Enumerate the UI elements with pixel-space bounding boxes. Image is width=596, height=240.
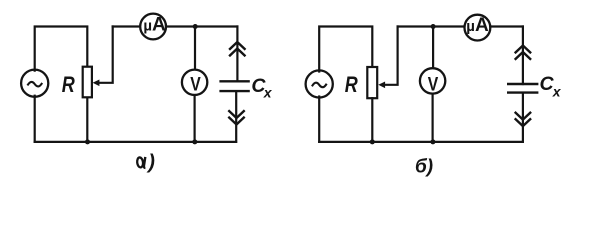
capacitor Cx plates (circuit a) [221,81,249,91]
wiper arrow wire of R (circuit b) [384,27,398,85]
capacitor Cx plates (circuit b) [508,84,537,93]
junction node on top wire (circuit a) [193,24,198,29]
svg-text:V: V [428,74,439,95]
wire: junction down to voltmeter (circuit a) [194,27,196,70]
wire: microammeter to capacitor branch (circuit a) [166,25,237,27]
svg-text:µA: µA [466,15,489,36]
wiper arrow wire of R (circuit a) [99,27,113,83]
wire: capacitor branch vertical (circuit b) [522,27,524,142]
resistor R (rheostat body, circuit b) [367,67,377,98]
svg-text:): ) [146,152,155,174]
downward double chevron on Cx lead (circuit b) [516,113,531,126]
wire: circuit a source bottom to bottom rail [34,96,36,142]
AC source G1 (circuit a) [21,70,48,97]
junction at voltmeter bottom (circuit b) [430,139,435,144]
wire: circuit b rheostat bottom to bottom rail [371,98,373,142]
upward double chevron on Cx lead (circuit b) [516,46,531,59]
svg-text:x: x [263,85,273,101]
svg-text:б): б) [415,157,433,178]
microammeter U1 (circuit a) [140,14,166,40]
sine symbol inside source (circuit a) [28,82,42,87]
wire: wiper corner to microammeter (circuit b) [398,25,465,27]
wire: circuit b bottom rail [319,141,523,143]
wire: circuit a bottom rail [35,141,236,143]
wire: circuit b source bottom to bottom rail [318,97,320,142]
sine symbol inside source (circuit b) [313,83,327,88]
wire: voltmeter bottom to bottom rail (circuit b) [432,94,434,142]
caption a) [137,152,156,174]
svg-text:x: x [552,84,562,100]
AC source G2 (circuit b) [306,70,333,97]
wire: circuit b left loop, source top up / across / down to rheostat top [319,27,372,72]
wire: circuit a rheostat bottom to bottom rail [86,98,88,142]
microammeter U2 (circuit b) [465,15,491,41]
resistor R (rheostat body, circuit a) [83,67,92,98]
junction at voltmeter bottom (circuit a) [192,139,197,144]
wiper arrowhead (circuit b) [378,82,385,89]
wire: circuit a left loop, source top up / across / down to rheostat top [35,27,88,71]
voltmeter V2 (circuit b) [420,68,445,93]
upward double chevron on Cx lead (circuit a) [230,42,245,55]
wire: capacitor branch vertical (circuit a) [236,27,237,142]
voltmeter V1 (circuit a) [182,70,207,95]
junction at rheostat bottom (circuit b) [370,139,375,144]
wiper arrowhead (circuit a) [93,80,100,87]
downward double chevron on Cx lead (circuit a) [229,111,244,124]
svg-text:R: R [345,72,358,97]
svg-text:µA: µA [143,15,166,36]
junction node on top wire (circuit b) [431,24,436,29]
junction at rheostat bottom (circuit a) [85,139,90,144]
wire: voltmeter bottom to bottom rail (circuit a) [194,95,196,142]
wire: wiper to microammeter (circuit a) [113,25,141,27]
wire: junction down to voltmeter (circuit b) [432,27,434,69]
svg-text:V: V [190,75,201,96]
svg-text:R: R [62,72,75,97]
wire: microammeter to capacitor branch (circuit b) [490,25,523,27]
